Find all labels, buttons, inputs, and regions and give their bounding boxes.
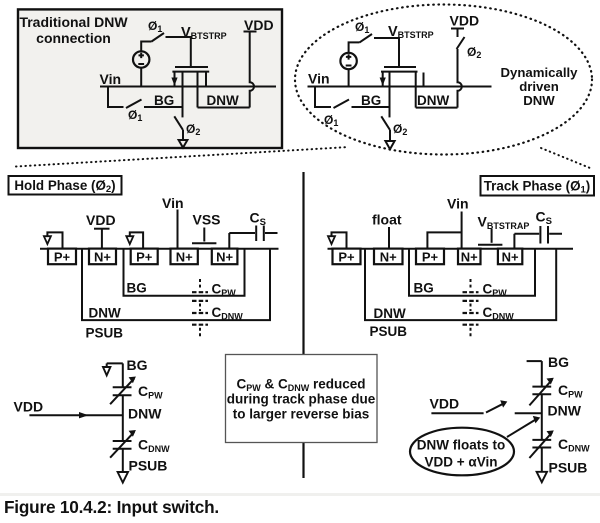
VDD T bar bbox=[244, 31, 257, 33]
wire DNW U bottom bbox=[198, 107, 250, 109]
svg-text:BG: BG bbox=[361, 93, 381, 108]
BG well outline track bbox=[409, 249, 535, 296]
svg-text:driven: driven bbox=[519, 79, 559, 94]
traditional box frame bbox=[18, 9, 282, 148]
wire switch down with hop to DNW bbox=[458, 49, 462, 108]
N+ box 4 bbox=[171, 249, 198, 265]
svg-text:float: float bbox=[372, 212, 402, 228]
svg-text:PSUB: PSUB bbox=[86, 326, 124, 341]
svg-text:BG: BG bbox=[127, 281, 147, 296]
VSS gate symbol bbox=[203, 228, 205, 242]
scan fold gray band bbox=[0, 493, 600, 496]
P+ box 3 bbox=[131, 249, 158, 265]
capacitor CPW variable bbox=[113, 387, 132, 395]
P+ box 1 bbox=[48, 249, 76, 265]
note box bbox=[226, 355, 378, 443]
svg-text:DNW: DNW bbox=[89, 306, 121, 321]
svg-text:Hold Phase (Ø2): Hold Phase (Ø2) bbox=[14, 178, 115, 195]
switch phi1 upper blade bbox=[152, 33, 165, 42]
callout dotted line right bbox=[541, 148, 590, 168]
switch phi2 VDD blade bbox=[457, 37, 465, 49]
surface line hold bbox=[40, 248, 279, 250]
wire DNW U bottom right bbox=[416, 107, 458, 109]
wire source top bbox=[141, 42, 151, 52]
svg-text:P+: P+ bbox=[338, 250, 355, 265]
svg-text:VDD: VDD bbox=[14, 399, 44, 415]
wire CDNW to PSUB right bbox=[541, 448, 543, 472]
P+ box 3 track bbox=[416, 249, 444, 265]
svg-text:N+: N+ bbox=[380, 250, 397, 265]
wire BG top right chain bbox=[527, 360, 542, 362]
wire drop to BG switch bbox=[108, 87, 124, 108]
wire CPW to DNW node right bbox=[541, 394, 543, 439]
transistor M1 gate bar bbox=[175, 66, 208, 68]
wire Vin to surface bbox=[177, 210, 179, 249]
svg-text:PSUB: PSUB bbox=[129, 458, 168, 474]
svg-text:Vin: Vin bbox=[447, 196, 469, 212]
svg-text:Vin: Vin bbox=[100, 71, 122, 87]
wire VDD to open switch bbox=[431, 412, 483, 414]
wire BG to CPW right chain bbox=[541, 361, 543, 386]
wire VDD down with hop over Vin wire bbox=[250, 32, 254, 108]
transistor M2 gate bar bbox=[384, 66, 416, 68]
transistor M2 bulk BG stub bbox=[389, 73, 391, 118]
substrate contact arrow 2 bbox=[130, 232, 143, 248]
svg-text:BG: BG bbox=[127, 357, 148, 373]
svg-text:DNW: DNW bbox=[523, 93, 555, 108]
transistor M1 channel bar bbox=[172, 71, 209, 73]
svg-text:Traditional DNW: Traditional DNW bbox=[19, 14, 128, 30]
svg-text:BG: BG bbox=[548, 354, 569, 370]
svg-text:N+: N+ bbox=[94, 250, 111, 265]
svg-text:N+: N+ bbox=[502, 250, 519, 265]
svg-text:VDD: VDD bbox=[430, 396, 460, 412]
svg-text:BG: BG bbox=[414, 281, 434, 296]
svg-text:PSUB: PSUB bbox=[370, 324, 408, 339]
svg-text:VDD: VDD bbox=[86, 212, 116, 228]
svg-text:P+: P+ bbox=[136, 250, 153, 265]
svg-text:VSS: VSS bbox=[193, 212, 221, 228]
wire to ground right bbox=[389, 130, 391, 140]
substrate arrow chain left bbox=[106, 363, 108, 367]
transistor M1 source stub with arrow bbox=[174, 73, 176, 87]
wire switch to VBTSTRP right bbox=[374, 38, 399, 66]
transistor M1 DNW stub bbox=[197, 73, 199, 108]
svg-text:DNW floats to: DNW floats to bbox=[417, 438, 506, 453]
wire switch to DNW node right bbox=[515, 412, 542, 414]
substrate contact arrow track bbox=[332, 232, 347, 248]
N+ box 5 bbox=[212, 249, 238, 265]
ground symbol bbox=[179, 140, 188, 148]
ground symbol right bbox=[385, 141, 394, 149]
open switch blade with arrow bbox=[486, 404, 503, 413]
wire CDNW to PSUB bbox=[122, 449, 124, 472]
wire to BG node right bbox=[352, 106, 390, 108]
svg-text:VDD + αVin: VDD + αVin bbox=[425, 455, 498, 470]
PSUB ground arrow left bbox=[118, 472, 128, 483]
voltage source V1 bbox=[133, 51, 149, 67]
N+ box 2 track bbox=[374, 249, 403, 265]
svg-text:DNW: DNW bbox=[128, 406, 162, 422]
transistor M1 bulk BG stub bbox=[182, 73, 184, 118]
surface line track bbox=[328, 248, 574, 250]
svg-text:to larger reverse bias: to larger reverse bias bbox=[233, 407, 370, 422]
N+ box 5 track bbox=[498, 249, 522, 265]
wire BG to CPW bbox=[122, 363, 124, 387]
hold phase label box bbox=[9, 176, 122, 195]
wire Vin horizontal bbox=[100, 86, 276, 88]
center divider line bbox=[302, 172, 304, 478]
svg-text:Vin: Vin bbox=[308, 71, 330, 87]
track phase label box bbox=[481, 176, 595, 196]
svg-text:BG: BG bbox=[154, 93, 174, 108]
N+ box 2 bbox=[89, 249, 116, 265]
transistor M2 source stub with arrow bbox=[382, 73, 384, 87]
DNW floats ellipse bbox=[410, 428, 514, 476]
svg-text:N+: N+ bbox=[176, 250, 193, 265]
svg-text:N+: N+ bbox=[461, 250, 478, 265]
wire BG top bbox=[107, 362, 123, 364]
svg-text:connection: connection bbox=[36, 30, 111, 46]
capacitor CDNW variable bbox=[113, 441, 132, 449]
svg-text:during track phase due: during track phase due bbox=[227, 392, 376, 407]
svg-text:Dynamically: Dynamically bbox=[501, 65, 579, 80]
capacitor CPW hold dashed bbox=[199, 279, 201, 288]
svg-text:P+: P+ bbox=[422, 250, 439, 265]
svg-text:Figure 10.4.2: Input switch.: Figure 10.4.2: Input switch. bbox=[4, 497, 219, 517]
transistor M2 drain stub bbox=[423, 73, 425, 87]
VDD T bar right bbox=[451, 28, 464, 30]
svg-text:VDD: VDD bbox=[450, 13, 480, 29]
wire source top right bbox=[349, 42, 360, 53]
DNW well outline track bbox=[365, 249, 556, 321]
capacitor CS bbox=[256, 226, 264, 242]
wire CPW to DNW node bbox=[122, 395, 124, 440]
svg-text:DNW: DNW bbox=[548, 403, 582, 419]
wire VDD to switch bbox=[457, 29, 459, 38]
wire source bottom to Vin wire bbox=[140, 67, 142, 86]
transistor M2 DNW stub bbox=[415, 73, 417, 108]
VDD symbol bbox=[94, 228, 110, 230]
P+ box 1 track bbox=[333, 249, 361, 265]
switch phi1 lower blade right bbox=[334, 100, 350, 109]
wire Vin horizontal right bbox=[308, 86, 492, 88]
svg-text:DNW: DNW bbox=[417, 93, 449, 108]
svg-text:PSUB: PSUB bbox=[549, 460, 588, 476]
wire switch to BG node bbox=[144, 106, 183, 108]
svg-text:DNW: DNW bbox=[207, 93, 239, 108]
transistor M2 channel bar bbox=[381, 71, 418, 73]
capacitor CDNW variable right bbox=[532, 440, 551, 448]
BG well outline hold bbox=[124, 249, 245, 296]
N+ box 4 track bbox=[458, 249, 481, 265]
switch phi1 upper blade right bbox=[360, 34, 373, 42]
capacitor CPW track dashed bbox=[470, 279, 472, 288]
svg-text:N+: N+ bbox=[216, 250, 233, 265]
svg-text:DNW: DNW bbox=[374, 306, 406, 321]
capacitor CDNW hold dashed bbox=[192, 313, 208, 325]
capacitor CDNW track dashed bbox=[463, 313, 479, 325]
switch phi2 blade bbox=[174, 116, 183, 130]
arrow ellipse to DNW node bbox=[507, 420, 536, 437]
DNW well outline hold bbox=[82, 249, 270, 321]
capacitor CPW variable right bbox=[532, 387, 551, 395]
switch phi1 lower blade bbox=[126, 100, 142, 109]
transistor M1 drain stub bbox=[205, 73, 207, 87]
switch phi2 blade right bbox=[381, 116, 390, 130]
wire drop to BG switch right bbox=[315, 87, 331, 108]
capacitor CS track bbox=[540, 226, 548, 244]
callout dotted line left bbox=[16, 147, 349, 167]
wire float to surface bbox=[388, 227, 390, 249]
svg-text:Vin: Vin bbox=[162, 195, 184, 211]
wire switch to VBTSTRP node bbox=[166, 37, 191, 66]
voltage source V2 bbox=[340, 53, 356, 69]
callout ellipse dotted bbox=[295, 5, 592, 155]
wire Vin bracket track bbox=[427, 212, 461, 249]
svg-text:P+: P+ bbox=[54, 250, 71, 265]
svg-text:Track Phase (Ø1): Track Phase (Ø1) bbox=[484, 179, 591, 196]
wire to ground bbox=[182, 130, 184, 140]
VBTSTRAP gate symbol bbox=[491, 229, 493, 243]
PSUB ground arrow right bbox=[537, 472, 547, 482]
substrate contact arrow 1 bbox=[47, 232, 62, 248]
wire source bottom right bbox=[348, 69, 350, 87]
wire VDD to DNW node with arrow bbox=[29, 414, 122, 416]
